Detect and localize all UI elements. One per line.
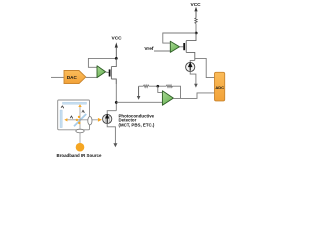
resistor R3 (VCC load) xyxy=(195,18,197,24)
resistor R1 xyxy=(143,85,148,88)
DAC block xyxy=(64,71,86,84)
node: VCC / Q1 drain / feedback junction xyxy=(115,57,118,60)
ground arrow (detector return) xyxy=(113,143,117,147)
current source I1 xyxy=(186,62,195,71)
ground arrow A1 (feedback divider bottom) xyxy=(137,86,141,100)
wire U1 output to Q1 gate xyxy=(106,71,109,74)
orange arrow up (to fixed mirror) xyxy=(78,104,81,107)
beam splitter xyxy=(74,114,86,126)
wire Q2 source node to ADC upper input xyxy=(195,58,215,77)
interferometer box xyxy=(58,100,90,130)
orange IR beam arrow into detector xyxy=(98,118,102,122)
svg-text:(MCT, PBS, ETC.): (MCT, PBS, ETC.) xyxy=(119,123,155,128)
beamsplitter annotation glyph 3 xyxy=(70,116,73,119)
svg-text:VCC: VCC xyxy=(191,2,202,8)
wire Vref to U2 lower input xyxy=(154,50,170,52)
beam source to lens xyxy=(79,133,81,143)
wire feedback U1 (from VCC node to upper input) xyxy=(88,58,116,67)
fixed mirror (top) xyxy=(63,102,87,104)
Photoconductive Detector label xyxy=(119,113,155,127)
wire Q1 source down to detector bias node xyxy=(115,79,117,111)
wire tap to U3 upper input xyxy=(158,86,163,92)
horizontal beam xyxy=(67,119,98,121)
node: VCC / Q2 drain / feedback junction xyxy=(195,32,198,35)
VCC arrow (left) xyxy=(115,42,118,58)
broadband IR source xyxy=(76,143,85,152)
svg-text:ADC: ADC xyxy=(215,85,224,90)
wire Q2 source to current source xyxy=(190,60,195,62)
feedback line with resistors (U3) xyxy=(139,85,144,87)
wire U3 output to ADC xyxy=(173,93,214,99)
op-amp U2 xyxy=(170,41,179,52)
svg-text:VCC: VCC xyxy=(112,35,123,41)
wire DAC input stub xyxy=(51,76,64,78)
focusing lens (right) xyxy=(88,117,92,125)
op-amp U1 xyxy=(97,66,106,78)
wire detector bottom to ground arrow xyxy=(107,124,115,144)
vertical beam xyxy=(79,106,81,131)
svg-text:Broadband IR Source: Broadband IR Source xyxy=(57,153,102,158)
svg-text:DAC: DAC xyxy=(67,75,78,80)
transistor Q1 xyxy=(109,58,117,84)
mirror annotation glyph 1 xyxy=(61,106,64,108)
wire current source output xyxy=(190,72,196,85)
op-amp U3 xyxy=(162,91,173,106)
transistor Q2 xyxy=(183,33,196,60)
mirror (left) xyxy=(60,110,62,128)
wire bias node to amplifier U3 input xyxy=(116,101,162,103)
wire R3 to drain node xyxy=(195,24,197,33)
orange arrow left (to mirror) xyxy=(64,118,67,121)
collimating lens (bottom) xyxy=(76,129,84,133)
wire R2 to output corner xyxy=(173,86,181,98)
VCC arrow (right) xyxy=(194,7,197,18)
mirror annotation glyph 2 xyxy=(82,110,85,113)
wire DAC to op-amp U1 xyxy=(86,76,97,78)
photoconductive detector PD1 xyxy=(103,114,112,123)
svg-text:Vref: Vref xyxy=(144,46,153,52)
arrow A2 (bias current into node) xyxy=(194,84,198,88)
wire bias node to detector top xyxy=(107,111,116,115)
resistor R2 xyxy=(166,85,172,88)
node: feedback tap xyxy=(157,85,160,88)
wire U2 output to Q2 gate xyxy=(180,46,184,48)
beam node dots xyxy=(78,116,80,118)
ADC block xyxy=(215,72,225,101)
wire R1 to node xyxy=(149,85,167,87)
wire feedback U2 (drain node to upper input) xyxy=(163,33,196,43)
node: detector bias junction xyxy=(115,101,118,104)
